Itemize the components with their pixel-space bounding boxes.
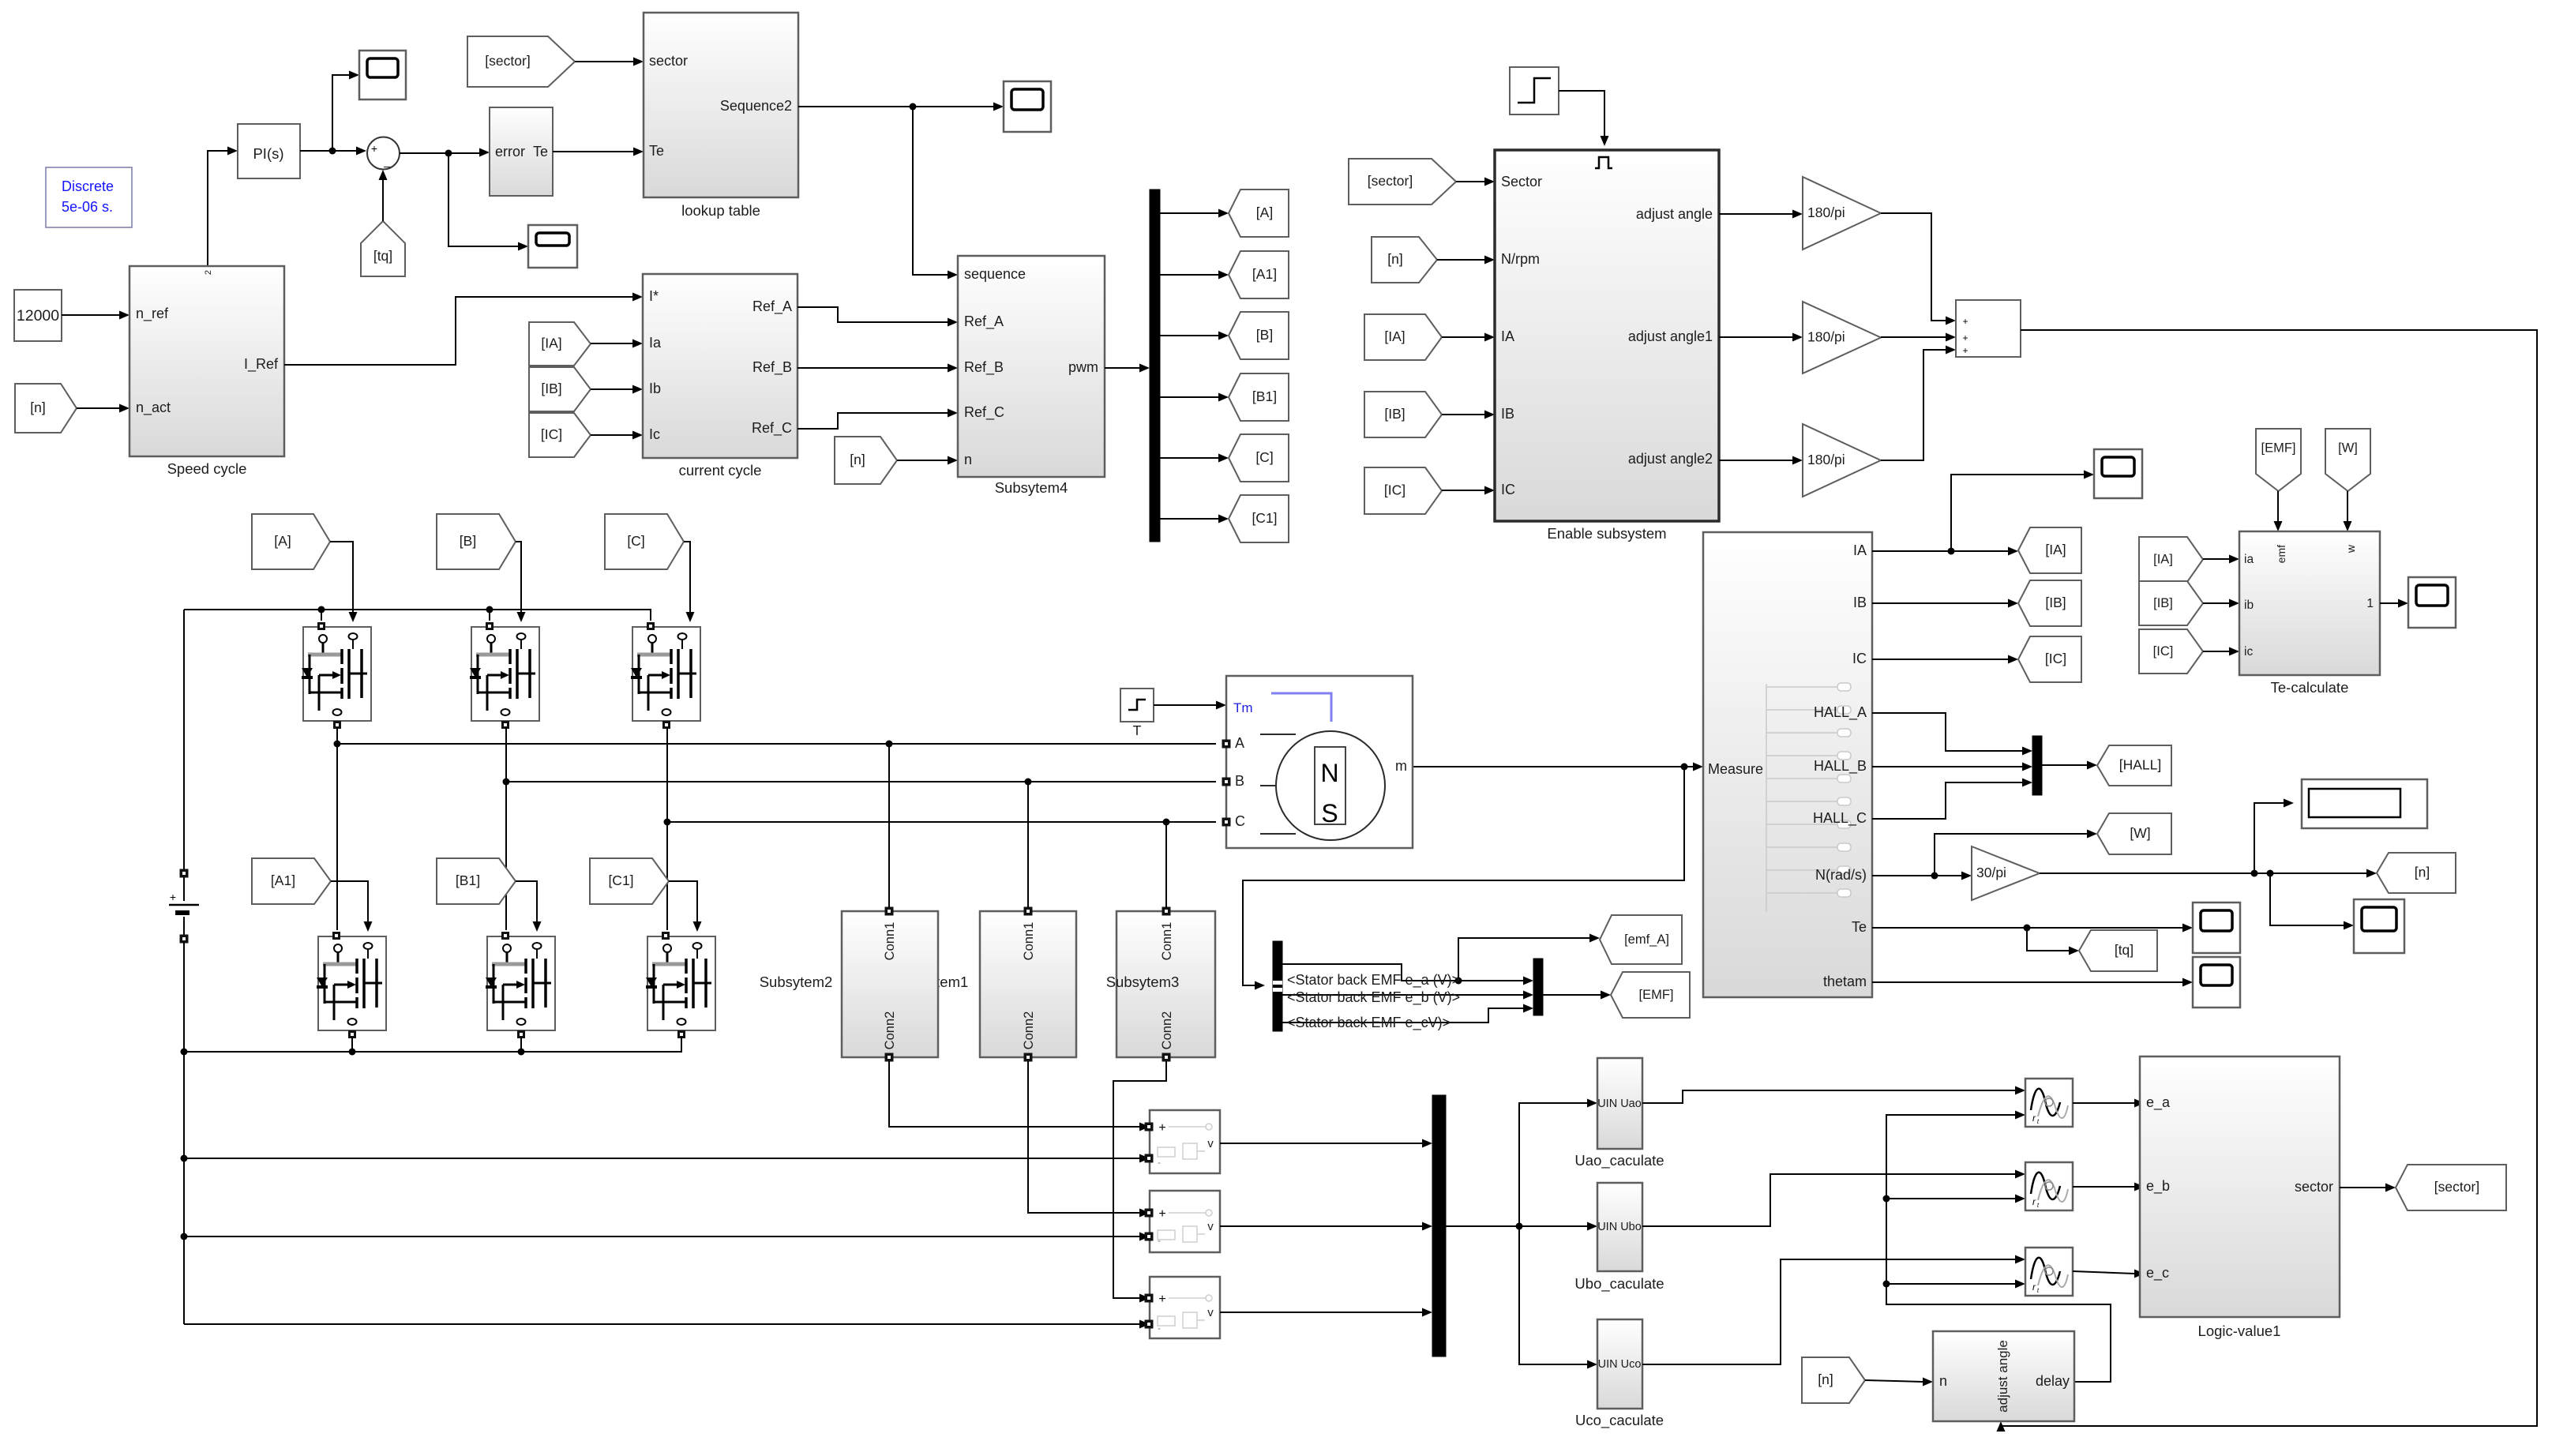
svg-text:180/pi: 180/pi: [1807, 452, 1845, 467]
from tag [tq] pointing up: [361, 221, 405, 276]
svg-text:n: n: [1939, 1373, 1947, 1389]
svg-text:pwm: pwm: [1068, 359, 1098, 375]
from tag [W] down: [2325, 429, 2370, 491]
wire mux to goto [HALL]: [2042, 761, 2097, 770]
wire bus selector e_b to mux3: [1282, 991, 1533, 1000]
wire 30/pi out to [n] with branches to display and scope: [2040, 799, 2377, 930]
svg-text:adjust angle: adjust angle: [1636, 206, 1713, 222]
svg-text:[IB]: [IB]: [2153, 596, 2173, 610]
svg-text:[tq]: [tq]: [373, 248, 392, 264]
from tag [IC] mid: [529, 413, 591, 457]
wire error out to lookup table Te: [553, 148, 644, 156]
svg-text:PI(s): PI(s): [253, 145, 283, 162]
wire negative rail from mosfet sources to battery: [181, 1037, 682, 1056]
svg-text:[IB]: [IB]: [1384, 406, 1405, 422]
mux bar for HALL: [2032, 736, 2042, 795]
block UIN Uco: [1597, 1319, 1642, 1409]
wire demux to goto [B1]: [1160, 393, 1229, 402]
svg-text:Ref_C: Ref_C: [752, 420, 792, 437]
wire Subsytem2 Conn2 to voltage measurement 1 plus: [889, 1061, 1150, 1131]
svg-text:5e-06 s.: 5e-06 s.: [62, 199, 113, 215]
wire phase B from M2 source: [503, 727, 1217, 930]
svg-text:+: +: [1158, 1293, 1165, 1306]
from tag [sector] top: [467, 36, 575, 87]
scope Scope6 below display: [2354, 899, 2404, 953]
wire [A1] to M4 drain: [331, 881, 373, 932]
wire 12000 to n_ref: [62, 311, 129, 320]
svg-text:I*: I*: [649, 288, 659, 304]
svg-text:[HALL]: [HALL]: [2119, 757, 2162, 773]
svg-text:e_a: e_a: [2146, 1094, 2171, 1111]
display block: [2302, 779, 2427, 828]
block Subsytem3 snubber: [1116, 907, 1215, 1061]
goto tag [IA] right: [2018, 527, 2081, 573]
goto tag [IB] right: [2018, 580, 2081, 626]
wire demux to goto [C]: [1160, 454, 1229, 463]
wire thetam to scope8: [1872, 978, 2193, 987]
from tag [IA] for Te-calculate: [2139, 537, 2203, 582]
scope Scope5: [2408, 577, 2456, 628]
svg-text:180/pi: 180/pi: [1807, 329, 1845, 345]
svg-text:ib: ib: [2244, 599, 2254, 612]
goto tag [C1]: [1229, 495, 1289, 542]
gain 180/pi third: [1803, 424, 1881, 497]
svg-text:Subsytem2: Subsytem2: [760, 974, 833, 990]
svg-text:C: C: [1235, 813, 1245, 829]
rt sine block 3: [2025, 1248, 2073, 1296]
svg-text:IC: IC: [1852, 651, 1867, 666]
svg-text:[emf_A]: [emf_A]: [1624, 933, 1669, 947]
from tag [n] near Subsytem4: [835, 437, 897, 484]
wire [EMF] to Te-calculate emf: [2274, 491, 2283, 531]
bus selector for motor measurement: [1273, 941, 1282, 1031]
goto tag [EMF]: [1611, 972, 1690, 1018]
svg-text:[sector]: [sector]: [2434, 1179, 2479, 1195]
goto tag [HALL]: [2097, 745, 2171, 786]
wire [B] down to mosfet2 drain: [516, 542, 526, 622]
wire [IA] to Ia: [591, 340, 643, 348]
svg-text:n_ref: n_ref: [136, 306, 169, 322]
svg-text:current cycle: current cycle: [679, 462, 762, 478]
svg-text:delay: delay: [2036, 1373, 2070, 1389]
svg-text:Tm: Tm: [1233, 700, 1253, 715]
svg-text:N: N: [1320, 759, 1338, 787]
wire rt1 to e_a: [2073, 1099, 2145, 1108]
wire Te to scopes and [tq]: [1872, 924, 2193, 955]
step block T: [1120, 689, 1154, 722]
wire rt3 to e_c: [2073, 1270, 2145, 1278]
svg-text:w: w: [2344, 544, 2357, 554]
svg-text:[B1]: [B1]: [1252, 388, 1277, 404]
goto tag [emf_A]: [1600, 915, 1682, 964]
block Enable subsystem: [1495, 150, 1719, 521]
svg-text:e_c: e_c: [2146, 1265, 2169, 1282]
svg-text:HALL_A: HALL_A: [1814, 704, 1867, 721]
svg-text:30/pi: 30/pi: [1976, 865, 2006, 880]
svg-text:adjust angle: adjust angle: [1995, 1340, 2010, 1413]
gain 180/pi second: [1803, 302, 1881, 373]
svg-text:+: +: [1962, 316, 1968, 327]
svg-text:Conn1: Conn1: [1022, 922, 1036, 961]
svg-text:Te: Te: [1852, 919, 1867, 935]
svg-text:[W]: [W]: [2130, 825, 2150, 841]
svg-text:Conn1: Conn1: [1160, 922, 1174, 961]
svg-text:[EMF]: [EMF]: [2261, 441, 2296, 456]
svg-text:[IC]: [IC]: [541, 426, 562, 442]
annotation Discrete 5e-06 s.: [46, 167, 132, 227]
svg-text:n: n: [964, 452, 972, 467]
wire [A] down to mosfet1 drain: [330, 542, 358, 622]
from tag [C] bridge: [605, 514, 684, 569]
mosfet M3 top row: [631, 623, 700, 729]
svg-text:I_Ref: I_Ref: [244, 356, 279, 373]
svg-text:Ref_B: Ref_B: [964, 359, 1004, 376]
wire add out long right and down to adjust angle trigger: [1997, 330, 2538, 1432]
wire [IA] to ia: [2203, 555, 2239, 564]
wire demux to goto [A1]: [1160, 271, 1229, 280]
svg-text:_: _: [383, 155, 390, 167]
svg-text:Ref_B: Ref_B: [752, 359, 792, 376]
svg-text:-: -: [1158, 1157, 1161, 1168]
wire rt2 to e_b: [2073, 1183, 2145, 1191]
svg-text:IB: IB: [1853, 595, 1867, 610]
wire gain3 to add: [1881, 346, 1956, 461]
wire [IC] to Ic: [591, 431, 643, 440]
wire [n] to N/rpm: [1437, 256, 1495, 265]
svg-text:Te-calculate: Te-calculate: [2271, 679, 2349, 696]
scope Scope1 top-left: [359, 51, 406, 99]
wire delay feedback to rt bottoms: [1883, 1111, 2111, 1383]
rt sine block 1: [2025, 1079, 2073, 1127]
wire [IC] to IC: [1442, 486, 1495, 495]
svg-text:<Stator back EMF e_a (V)>: <Stator back EMF e_a (V)>: [1287, 972, 1460, 989]
goto tag [W]: [2097, 813, 2171, 854]
svg-text:[IA]: [IA]: [2045, 542, 2066, 557]
svg-text:Sequence2: Sequence2: [720, 98, 792, 114]
svg-text:m: m: [1395, 758, 1407, 774]
wire adjust angle2 to gain3: [1719, 456, 1803, 465]
svg-text:Subsytem4: Subsytem4: [995, 479, 1068, 496]
wire demux to goto [B]: [1160, 332, 1229, 340]
wire I_Ref to current cycle I*: [284, 293, 643, 366]
wire Uco out to rt3 top: [1642, 1255, 2025, 1365]
wire mux3 to goto [EMF]: [1543, 991, 1611, 1000]
block PI(s): [238, 124, 300, 178]
wire adjust angle to gain1: [1719, 210, 1803, 219]
wire step to Enable subsystem trigger: [1559, 91, 1609, 146]
goto tag [A]: [1229, 190, 1289, 237]
svg-text:[W]: [W]: [2338, 441, 2358, 456]
from tag [IC] for Enable: [1364, 467, 1442, 514]
wire T to motor Tm: [1154, 701, 1226, 710]
wire Subsytem2 Conn1 to phase A: [888, 744, 890, 907]
wire Speed cycle trigger out 2 to PI(s): [208, 147, 238, 267]
svg-text:+: +: [1158, 1121, 1165, 1135]
wire [n] to Subsytem4 n: [897, 456, 958, 465]
svg-text:[IB]: [IB]: [541, 381, 561, 396]
wire HALL_A to mux: [1872, 713, 2032, 756]
block BLDC motor: [1222, 676, 1413, 848]
wire [C] down to mosfet3 drain: [684, 542, 695, 622]
goto tag [B]: [1229, 312, 1289, 359]
scope Scope3 top middle: [1004, 81, 1051, 132]
svg-text:lookup table: lookup table: [681, 202, 760, 219]
goto tag [sector] bottom right: [2396, 1165, 2506, 1210]
svg-text:Conn2: Conn2: [1160, 1011, 1174, 1050]
wire adjust angle1 to gain2: [1719, 333, 1803, 342]
svg-text:Subsytem3: Subsytem3: [1106, 974, 1180, 990]
wire Ref_B to Subsytem4: [797, 364, 958, 373]
svg-text:[n]: [n]: [2415, 865, 2430, 880]
svg-text:[IC]: [IC]: [2153, 644, 2174, 659]
svg-text:[A1]: [A1]: [1252, 266, 1277, 282]
svg-text:[tq]: [tq]: [2115, 942, 2134, 958]
from tag [n] bottom: [1802, 1357, 1865, 1403]
wire negative rail 1 to vm1 minus: [184, 1154, 1150, 1163]
svg-text:[n]: [n]: [850, 452, 865, 467]
block error Te: [490, 107, 553, 196]
svg-text:+: +: [1962, 345, 1968, 356]
block UIN Uao: [1597, 1058, 1642, 1149]
wire demux to goto [A]: [1160, 209, 1229, 218]
svg-text:S: S: [1321, 799, 1338, 827]
wire motor m to Measure with branch down to bus selector: [1243, 763, 1703, 990]
block Measure: [1703, 532, 1872, 997]
wire [IB] to Ib: [591, 385, 643, 394]
svg-text:<Stator back EMF e_cV)>: <Stator back EMF e_cV)>: [1287, 1015, 1451, 1031]
svg-text:B: B: [1235, 773, 1244, 789]
svg-text:HALL_B: HALL_B: [1814, 758, 1867, 775]
svg-text:T: T: [1133, 722, 1142, 738]
wire [IA] to IA: [1442, 333, 1495, 342]
svg-text:+: +: [1962, 332, 1968, 343]
wire gain1 to add: [1881, 213, 1956, 325]
svg-text:Te: Te: [649, 143, 664, 159]
svg-text:IB: IB: [1501, 406, 1514, 422]
svg-text:[IC]: [IC]: [1384, 482, 1405, 498]
rt sine block 2: [2025, 1162, 2073, 1210]
svg-text:[C1]: [C1]: [1252, 510, 1277, 526]
svg-text:Measure: Measure: [1708, 761, 1763, 777]
svg-text:N(rad/s): N(rad/s): [1815, 867, 1867, 883]
wire [sector] to lookup table: [575, 58, 644, 66]
svg-text:12000: 12000: [17, 307, 59, 325]
wire [n] to adjust angle n: [1865, 1378, 1933, 1387]
mux bar for EMF: [1533, 959, 1543, 1015]
wire [IB] to ib: [2203, 599, 2239, 608]
mux bar for voltages: [1432, 1095, 1446, 1357]
mosfet M4 bottom row: [317, 933, 386, 1038]
svg-text:Conn2: Conn2: [1022, 1011, 1036, 1050]
svg-text:Ref_A: Ref_A: [964, 313, 1004, 330]
mosfet M5 bottom row: [486, 933, 555, 1038]
svg-text:[sector]: [sector]: [485, 53, 530, 69]
add block: [1956, 300, 2021, 357]
svg-text:Enable subsystem: Enable subsystem: [1547, 525, 1666, 542]
svg-text:+: +: [1158, 1207, 1165, 1221]
wire positive rail from battery to gates: [184, 606, 651, 621]
svg-text:Ref_C: Ref_C: [964, 404, 1004, 421]
wire mux4 out to UIN blocks: [1446, 1099, 1597, 1369]
wire Measure IC to goto [IC]: [1872, 655, 2018, 664]
block Subsytem4: [958, 256, 1105, 477]
goto tag [A1]: [1229, 251, 1289, 298]
wire Measure IA to goto [IA] with branch to scope4: [1872, 471, 2094, 556]
demux bus bar for pwm: [1150, 190, 1160, 542]
from tag [IB] for Enable: [1364, 392, 1442, 437]
wire [sector] to Sector: [1456, 178, 1495, 186]
from tag [IB] mid: [529, 367, 591, 411]
from tag [n] left: [15, 384, 77, 433]
wire sum out to error block with branch to scope2: [400, 148, 528, 251]
voltage measurement block 1: [1145, 1110, 1220, 1173]
svg-text:+: +: [371, 142, 377, 155]
goto tag [B1]: [1229, 373, 1289, 421]
svg-text:[C]: [C]: [627, 533, 644, 549]
block current cycle: [643, 274, 797, 458]
goto tag [C]: [1229, 434, 1289, 482]
wire Te-calculate out to scope5: [2380, 599, 2408, 608]
wire Ubo out to rt2 top: [1642, 1170, 2025, 1227]
wire HALL_C to mux: [1872, 779, 2032, 820]
svg-text:Logic-value1: Logic-value1: [2198, 1323, 2281, 1339]
step block top right: [1510, 67, 1559, 114]
wire bus selector e_c to mux3: [1282, 1004, 1533, 1023]
mosfet M1 top row: [302, 623, 371, 729]
svg-text:ia: ia: [2244, 553, 2254, 566]
svg-text:n_act: n_act: [136, 400, 171, 416]
svg-text:HALL_C: HALL_C: [1813, 810, 1867, 827]
scope Scope7: [2193, 902, 2240, 953]
wire Subsytem1 Conn2 to voltage measurement 2 plus: [1028, 1061, 1150, 1218]
goto... from tag [A] bridge: [252, 514, 330, 569]
wire Subsytem1 Conn1 to phase B: [1027, 782, 1029, 907]
svg-text:[B]: [B]: [1256, 327, 1273, 343]
scope Scope4: [2094, 449, 2142, 498]
block Speed cycle: [129, 266, 284, 456]
wire vm2 v to mux4: [1220, 1222, 1432, 1231]
svg-text:[B1]: [B1]: [456, 872, 480, 888]
wire demux to goto [C1]: [1160, 515, 1229, 523]
block lookup table: [644, 13, 798, 197]
wire phase A from M1 source: [334, 727, 1217, 930]
from tag [A1]: [252, 858, 331, 904]
svg-text:thetam: thetam: [1823, 974, 1867, 989]
wire sector out to goto [sector]: [2340, 1184, 2396, 1192]
svg-text:Conn2: Conn2: [883, 1011, 897, 1050]
wire Subsytem3 Conn2 to voltage measurement 3 plus: [1113, 1061, 1166, 1303]
sum junction block: [367, 137, 400, 170]
from tag [IA] for Enable: [1364, 314, 1442, 360]
svg-text:sector: sector: [649, 53, 688, 69]
svg-text:[IB]: [IB]: [2045, 595, 2066, 610]
svg-text:<Stator back EMF e_b (V)>: <Stator back EMF e_b (V)>: [1287, 989, 1460, 1006]
block UIN Ubo: [1597, 1183, 1642, 1271]
block Subsytem1 snubber: [980, 907, 1076, 1061]
svg-text:2: 2: [204, 270, 213, 275]
from tag [IA] mid: [529, 322, 591, 366]
svg-text:UIN Ubo: UIN Ubo: [1597, 1221, 1642, 1233]
svg-text:[B]: [B]: [460, 533, 476, 549]
gain 30/pi: [1972, 846, 2040, 900]
svg-text:Ia: Ia: [649, 335, 662, 351]
svg-text:N/rpm: N/rpm: [1501, 251, 1540, 267]
svg-text:IC: IC: [1501, 482, 1515, 497]
from tag [n] for Enable: [1372, 237, 1437, 283]
svg-text:Sector: Sector: [1501, 174, 1542, 190]
wire vm1 v to mux4: [1220, 1139, 1432, 1148]
svg-text:Ib: Ib: [649, 381, 661, 396]
svg-text:IA: IA: [1501, 328, 1514, 344]
block adjust angle: [1933, 1331, 2074, 1421]
wire [n] to n_act: [77, 404, 129, 413]
svg-text:Speed cycle: Speed cycle: [167, 460, 247, 477]
from tag [IB] for Te-calculate: [2139, 581, 2203, 625]
svg-text:[sector]: [sector]: [1368, 173, 1413, 189]
svg-text:UIN Uco: UIN Uco: [1598, 1358, 1642, 1371]
from tag [sector] for Enable: [1349, 159, 1456, 205]
wire [tq] to sum: [379, 170, 388, 221]
svg-text:[A1]: [A1]: [271, 872, 295, 888]
svg-text:[n]: [n]: [1818, 1372, 1833, 1387]
wire Ref_A to Subsytem4: [797, 307, 958, 327]
svg-text:Ref_A: Ref_A: [752, 298, 792, 315]
svg-text:[IC]: [IC]: [2045, 651, 2066, 666]
goto tag [n] right: [2377, 853, 2456, 893]
from tag [EMF] down: [2256, 429, 2301, 491]
wire phase C from M3 source: [664, 727, 1217, 930]
from tag [B1]: [437, 858, 516, 904]
svg-text:[A]: [A]: [1256, 205, 1273, 220]
wire PI(s) out to sum with branch to scope: [300, 71, 366, 156]
goto tag [tq] right: [2079, 930, 2157, 971]
svg-text:[EMF]: [EMF]: [1639, 988, 1674, 1002]
wire Subsytem3 Conn1 to phase C: [1165, 822, 1167, 907]
svg-text:emf: emf: [2275, 545, 2287, 563]
wire [W] to Te-calculate w: [2344, 491, 2352, 531]
wire [IB] to IB: [1442, 411, 1495, 419]
svg-text:[C1]: [C1]: [608, 872, 633, 888]
svg-text:[C]: [C]: [1255, 449, 1273, 465]
block Subsytem2 snubber: [842, 907, 938, 1061]
svg-text:sector: sector: [2295, 1179, 2333, 1195]
wire negative rail 2 to vm2 minus: [184, 1233, 1150, 1241]
from tag [IC] for Te-calculate: [2139, 629, 2203, 674]
from tag [B] bridge: [437, 514, 516, 569]
wire bus selector e_a to mux3 and emf_A: [1282, 934, 1600, 985]
svg-text:+: +: [170, 891, 176, 903]
wire Ref_C to Subsytem4: [797, 409, 958, 430]
svg-text:Ubo_caculate: Ubo_caculate: [1574, 1275, 1664, 1293]
svg-text:error: error: [495, 144, 525, 159]
svg-text:Te: Te: [533, 144, 548, 159]
svg-text:v: v: [1207, 1137, 1214, 1150]
svg-text:[IA]: [IA]: [2153, 553, 2173, 567]
wire Uao out to rt1 top: [1642, 1086, 2025, 1104]
svg-text:Discrete: Discrete: [62, 178, 114, 194]
scope Scope2: [528, 225, 577, 268]
svg-text:e_b: e_b: [2146, 1178, 2170, 1195]
svg-text:Ic: Ic: [649, 426, 660, 442]
svg-text:ic: ic: [2244, 645, 2253, 659]
svg-text:adjust angle1: adjust angle1: [1628, 328, 1713, 344]
svg-text:[n]: [n]: [30, 400, 45, 415]
block Logic-value1: [2140, 1056, 2340, 1317]
svg-text:Conn1: Conn1: [883, 922, 897, 961]
svg-text:IA: IA: [1853, 542, 1867, 558]
gain 180/pi first: [1803, 177, 1881, 250]
wire HALL_B to mux: [1872, 763, 2032, 771]
